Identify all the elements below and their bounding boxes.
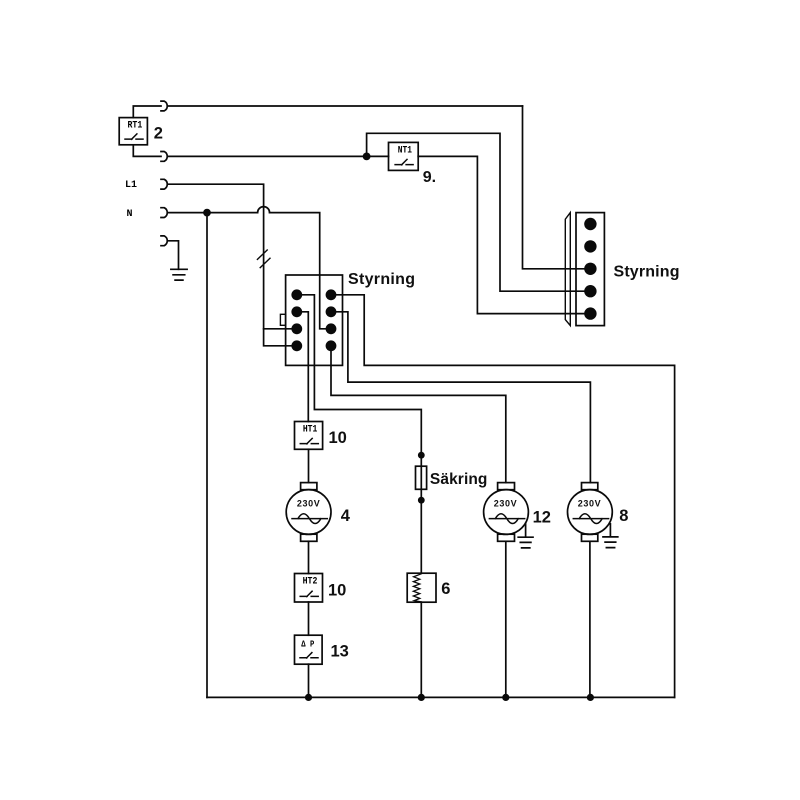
- motor M12: [484, 483, 529, 542]
- svg-text:12: 12: [533, 508, 551, 526]
- connector X2 pin3: [584, 263, 596, 275]
- junction J1: [363, 153, 371, 161]
- ground PE: [171, 269, 187, 280]
- wire HT2 to pressure switch: [308, 602, 310, 635]
- ground M8: [603, 524, 618, 548]
- connector X3 pin R3: [326, 323, 337, 334]
- connector X2 pin4: [584, 285, 596, 297]
- cable slashes: [257, 250, 270, 268]
- thermostat NT1: [389, 142, 419, 170]
- svg-text:10: 10: [328, 581, 346, 599]
- terminal plug N: [161, 208, 167, 218]
- motor M8: [568, 483, 613, 542]
- wire PE to ground: [168, 241, 179, 269]
- svg-text:NT1: NT1: [398, 145, 412, 156]
- svg-text:Δ P: Δ P: [301, 640, 314, 650]
- terminal plug P2: [161, 152, 167, 162]
- connector X3 pin L4: [291, 340, 302, 351]
- fuse F1: [416, 466, 427, 489]
- motor M4: [286, 483, 331, 542]
- pressure switch DP: [295, 635, 323, 664]
- terminal plug P1: [161, 101, 167, 111]
- svg-text:6: 6: [441, 580, 450, 598]
- connector X3 pin R4: [326, 340, 337, 351]
- wire M4 to HT2: [308, 541, 310, 573]
- connector X3 pin L1: [291, 289, 302, 300]
- wire N with hop to connector X3 pin R3: [168, 213, 332, 329]
- wire P1 to node A: [168, 105, 523, 107]
- connector X3 pin R2: [326, 306, 337, 317]
- thermostat HT1: [295, 422, 323, 450]
- junction J2: [203, 209, 211, 217]
- wire M12 to bus: [505, 541, 507, 697]
- svg-text:4: 4: [341, 507, 351, 525]
- wire L1 to connector X3 pin L4: [168, 184, 297, 346]
- terminal plug PE: [161, 236, 167, 246]
- svg-text:Säkring: Säkring: [430, 471, 488, 488]
- wire X3 L1 to fuse chain: [297, 295, 422, 573]
- terminal plug L1: [161, 179, 167, 189]
- wire J2 down to bus: [206, 213, 208, 698]
- svg-text:2: 2: [154, 124, 163, 142]
- wire P2 to NT1: [168, 155, 389, 157]
- connector X3 pin L2: [291, 306, 302, 317]
- wire branch to connector X3 pin L3: [264, 328, 297, 330]
- wire DP to bus: [308, 664, 310, 697]
- connector X2 hood: [565, 213, 570, 326]
- junction bus B4: [587, 694, 594, 701]
- junction bus B1: [305, 694, 312, 701]
- node fuse top: [418, 452, 425, 459]
- svg-text:8: 8: [619, 507, 628, 525]
- relay RT1: [119, 118, 147, 145]
- connector X2 body: [576, 213, 604, 326]
- wire RT1 bottom to plug: [133, 145, 161, 157]
- wire hop arc: [258, 207, 270, 213]
- junction bus B2: [418, 694, 425, 701]
- svg-text:Styrning: Styrning: [348, 271, 415, 288]
- wire X3 R4 to motor M12: [331, 346, 506, 483]
- connector X2 pin5: [584, 307, 596, 319]
- connector X3 pin R1: [326, 289, 337, 300]
- svg-text:9.: 9.: [423, 169, 436, 186]
- svg-text:N: N: [127, 209, 133, 220]
- svg-text:230V: 230V: [494, 499, 517, 509]
- bus N bottom: [207, 696, 675, 698]
- connector X3 pin L3: [291, 323, 302, 334]
- wire R6 to bus: [420, 602, 422, 697]
- junction bus B3: [502, 694, 509, 701]
- svg-text:230V: 230V: [297, 499, 320, 509]
- heating element R6: [407, 573, 436, 602]
- svg-text:Styrning: Styrning: [614, 263, 680, 280]
- connector X3 body: [286, 275, 343, 365]
- connector X2 pin2: [584, 240, 596, 252]
- wire X3 R2 to motor M8: [331, 312, 590, 483]
- wire HT1 to motor M4: [308, 449, 310, 482]
- svg-text:L1: L1: [125, 180, 137, 191]
- wire NT1 to connector X2 pin5: [418, 156, 590, 313]
- svg-text:13: 13: [331, 642, 349, 660]
- wire X3 R1 to right rail: [331, 295, 675, 698]
- wire M8 to bus: [589, 541, 591, 697]
- connector X3 bracket: [280, 314, 285, 325]
- svg-text:RT1: RT1: [128, 121, 143, 132]
- thermostat HT2: [295, 574, 323, 603]
- wire RT1 top to plug: [133, 106, 161, 118]
- ground M12: [518, 524, 533, 548]
- wire X3 L2 to HT1: [297, 312, 309, 422]
- svg-text:HT2: HT2: [303, 576, 318, 587]
- svg-text:HT1: HT1: [303, 424, 318, 435]
- connector X2 pin1: [584, 218, 596, 230]
- svg-text:230V: 230V: [578, 499, 601, 509]
- wire node A down to connector X2 pin3: [523, 106, 591, 269]
- wire J1 bypass to connector X2 pin4: [367, 133, 591, 291]
- svg-text:10: 10: [329, 429, 347, 447]
- node fuse bottom: [418, 497, 425, 504]
